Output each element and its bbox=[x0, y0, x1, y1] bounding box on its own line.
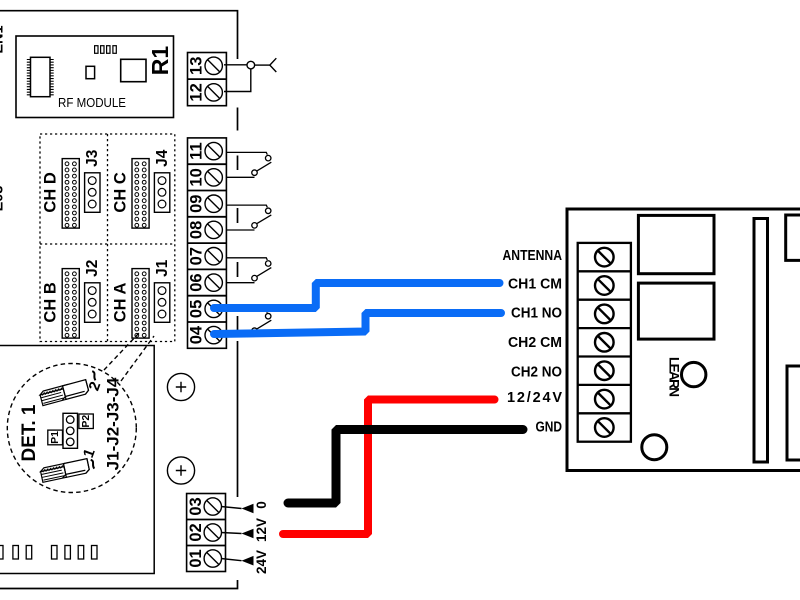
RF module box bbox=[16, 36, 174, 118]
connector J2 bbox=[85, 283, 100, 323]
case right edge dash 4 bbox=[237, 262, 239, 277]
receiver screw terminal 4 bbox=[595, 333, 614, 352]
node circle bbox=[247, 61, 255, 69]
pin header CH C bbox=[132, 159, 149, 229]
svg-text:CH1 CM: CH1 CM bbox=[508, 276, 562, 292]
jumper cap top (pos 2) bbox=[39, 380, 89, 406]
svg-text:12V: 12V bbox=[254, 518, 269, 542]
svg-text:ANTENNA: ANTENNA bbox=[503, 248, 563, 264]
svg-text:CH C: CH C bbox=[111, 172, 129, 212]
svg-text:E03: E03 bbox=[0, 186, 7, 212]
receiver terminal strip bbox=[578, 243, 631, 442]
svg-text:02: 02 bbox=[187, 523, 205, 541]
svg-text:CH2 CM: CH2 CM bbox=[508, 335, 562, 351]
relay K1 bbox=[638, 215, 714, 273]
case right edge dash 3 bbox=[237, 208, 239, 223]
small component bbox=[86, 66, 95, 78]
svg-text:01: 01 bbox=[187, 549, 205, 567]
svg-text:08: 08 bbox=[188, 221, 206, 239]
pin header CH B bbox=[62, 269, 79, 339]
receiver screw terminal 5 bbox=[595, 361, 614, 380]
case outline top edge bbox=[0, 11, 238, 59]
receiver board outline bbox=[567, 209, 800, 471]
connector J3 bbox=[85, 173, 100, 213]
case outline bottom edge bbox=[0, 580, 238, 589]
svg-text:J3: J3 bbox=[84, 149, 101, 167]
terminal block outputs 04-11 bbox=[188, 138, 227, 348]
svg-text:06: 06 bbox=[188, 273, 206, 291]
svg-text:11: 11 bbox=[188, 142, 206, 159]
leader line 1 bbox=[104, 333, 139, 370]
svg-text:DET. 1: DET. 1 bbox=[19, 404, 40, 461]
svg-text:10: 10 bbox=[188, 168, 206, 186]
lead from terminal 01 bbox=[221, 559, 242, 561]
svg-text:24V: 24V bbox=[254, 550, 269, 574]
case right edge dash 1 bbox=[237, 108, 239, 131]
wire 12 up to node bbox=[224, 69, 251, 92]
pin header CH A bbox=[132, 269, 149, 339]
svg-text:CH D: CH D bbox=[42, 172, 60, 212]
terminal block power 01-03 bbox=[187, 494, 226, 572]
mounting hole + bottom bbox=[167, 457, 194, 484]
svg-text:J2: J2 bbox=[84, 260, 101, 277]
wire 13 to node bbox=[224, 64, 247, 66]
lead from terminal 02 bbox=[221, 533, 242, 534]
svg-text:P1: P1 bbox=[49, 431, 61, 444]
receiver screw terminal 1 bbox=[595, 248, 614, 267]
P2 box bbox=[79, 414, 93, 429]
relay K2 bbox=[638, 283, 714, 339]
detail circle dashed bbox=[7, 364, 136, 493]
svg-text:07: 07 bbox=[188, 247, 206, 265]
P1 box bbox=[48, 430, 63, 445]
svg-text:05: 05 bbox=[188, 300, 206, 318]
svg-text:GND: GND bbox=[536, 420, 563, 436]
partial component bottom-right bbox=[787, 366, 800, 460]
receiver screw terminal 3 bbox=[595, 305, 614, 324]
svg-text:04: 04 bbox=[188, 325, 206, 344]
svg-text:CH1 NO: CH1 NO bbox=[511, 305, 562, 321]
IC pins bbox=[27, 60, 54, 95]
edge connector bbox=[754, 219, 768, 463]
receiver screw terminal 2 bbox=[595, 276, 614, 295]
dashed quadrant outer box bbox=[40, 134, 175, 342]
relay contact switch 3 bbox=[226, 258, 271, 283]
4 pads bbox=[95, 46, 117, 54]
svg-text:CH2 NO: CH2 NO bbox=[511, 364, 562, 380]
LEARN button bbox=[682, 362, 706, 386]
svg-text:12: 12 bbox=[188, 83, 206, 101]
case right edge dash 5 bbox=[237, 316, 239, 331]
svg-text:0: 0 bbox=[254, 501, 269, 509]
channel groups bbox=[42, 149, 171, 338]
relay contact switch 2 bbox=[226, 205, 271, 230]
svg-text:CH B: CH B bbox=[42, 282, 60, 322]
jumper strip 3 holes bbox=[63, 413, 78, 448]
partial component top-right bbox=[786, 215, 800, 260]
svg-text:LEARN: LEARN bbox=[667, 357, 682, 397]
wire red 12/24V to terminal 02 bbox=[283, 400, 495, 535]
wire black GND to terminal 03 bbox=[288, 430, 523, 504]
jumper cap bottom (pos 1) bbox=[40, 459, 90, 483]
IC U1 body bbox=[31, 57, 51, 96]
dashed divider horizontal bbox=[40, 243, 175, 245]
connector J4 bbox=[154, 173, 169, 213]
terminal block antenna 12-13 bbox=[188, 53, 227, 106]
mounting hole + top bbox=[167, 373, 194, 400]
wire blue CH1 CM from terminal 05 bbox=[214, 283, 500, 308]
svg-text:13: 13 bbox=[188, 57, 206, 75]
arrow 12V bbox=[242, 529, 254, 539]
relay R1 body bbox=[121, 59, 146, 81]
svg-text:CH A: CH A bbox=[111, 282, 129, 322]
lead from terminal 03 bbox=[221, 507, 242, 509]
dashed divider vertical bbox=[107, 134, 109, 342]
relay contact switch 4 bbox=[226, 311, 271, 336]
arrow 24V bbox=[242, 556, 254, 566]
svg-text:J4: J4 bbox=[154, 149, 171, 167]
svg-text:J1-J2-J3-J4: J1-J2-J3-J4 bbox=[104, 377, 123, 470]
leader line 2 bbox=[121, 336, 154, 381]
switch symbols bbox=[226, 152, 271, 335]
arrow swoosh 2 bbox=[92, 371, 95, 380]
case right edge dash 2 bbox=[237, 156, 239, 171]
case right edge solid segment mid bbox=[237, 341, 239, 497]
power arrows + labels bbox=[221, 501, 269, 574]
svg-text:RF MODULE: RF MODULE bbox=[58, 96, 126, 110]
svg-text:R1: R1 bbox=[147, 46, 173, 76]
relay contact switch 1 bbox=[226, 152, 271, 177]
pin header CH D bbox=[62, 159, 79, 229]
svg-text:03: 03 bbox=[187, 497, 205, 515]
svg-text:P2: P2 bbox=[80, 415, 92, 428]
arrow swoosh 1 bbox=[91, 460, 95, 469]
PCB inner rect lower-left bbox=[0, 346, 154, 574]
connector J1 bbox=[154, 283, 169, 323]
svg-text:09: 09 bbox=[188, 195, 206, 213]
svg-text:EN1: EN1 bbox=[0, 25, 7, 53]
antenna fork bbox=[270, 58, 277, 72]
receiver screw terminal 7 bbox=[595, 418, 614, 437]
svg-text:J1: J1 bbox=[154, 259, 171, 277]
arrow 0 bbox=[242, 504, 254, 514]
wire blue CH1 NO from terminal 04 bbox=[214, 313, 501, 334]
receiver screw terminal 6 bbox=[595, 390, 614, 409]
bottom connector pads bbox=[0, 546, 97, 560]
antenna lead bbox=[255, 64, 270, 66]
led/hole bottom bbox=[642, 435, 667, 460]
